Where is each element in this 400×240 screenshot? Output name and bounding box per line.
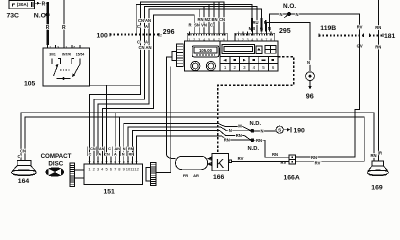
svg-text:181: 181 bbox=[384, 33, 396, 40]
long speaker wire row 1 bbox=[21, 113, 374, 161]
riser 296 pin7 bbox=[218, 2, 220, 32]
svg-text:73C: 73C bbox=[7, 13, 20, 20]
connector strip 296 pins bbox=[187, 32, 227, 42]
svg-text:15/54: 15/54 bbox=[76, 53, 85, 57]
svg-text:96: 96 bbox=[306, 91, 314, 100]
wire second feed to 105 bbox=[63, 0, 65, 45]
connector 100 dotted strip bbox=[110, 33, 162, 38]
svg-text:CN: CN bbox=[138, 18, 144, 23]
radio display bbox=[192, 46, 219, 57]
drop to 151 pin8 bbox=[118, 117, 120, 160]
pin ticks into 151 bbox=[89, 157, 138, 164]
svg-text:N: N bbox=[307, 60, 310, 65]
labels above 295 bbox=[249, 20, 271, 31]
wire from 295 to ground 96 bbox=[266, 22, 310, 71]
svg-text:RN: RN bbox=[128, 147, 134, 151]
svg-text:RV: RV bbox=[357, 25, 363, 30]
svg-text:100: 100 bbox=[97, 32, 109, 39]
wire R thick feed down to 105 bbox=[46, 2, 48, 45]
wire 151 pin9 to junction bbox=[124, 124, 251, 160]
svg-text:AN: AN bbox=[115, 147, 121, 151]
riser 296 pin4 bbox=[203, 7, 205, 32]
shield symbol to 190 bbox=[276, 126, 291, 133]
labels above connector 151 upper row bbox=[90, 147, 134, 151]
inline connector 166A bbox=[289, 155, 296, 164]
svg-text:C: C bbox=[89, 152, 92, 156]
svg-text:CN: CN bbox=[219, 17, 225, 22]
wire junction A to shield symbol bbox=[252, 130, 276, 132]
radio button grid bbox=[220, 57, 278, 71]
svg-text:RN: RN bbox=[370, 153, 376, 158]
cable loop to relay bbox=[176, 156, 212, 169]
svg-text:295: 295 bbox=[279, 28, 291, 35]
svg-text:C: C bbox=[17, 154, 20, 159]
riser 295 MB thick bbox=[251, 18, 253, 32]
svg-text:N: N bbox=[122, 152, 125, 156]
radio panel divider bbox=[219, 41, 221, 71]
svg-text:A: A bbox=[145, 24, 148, 29]
riser 295 stub R bbox=[265, 20, 267, 32]
compact disc symbol bbox=[46, 167, 65, 176]
long speaker wire row 2 bbox=[25, 117, 364, 161]
svg-text:C: C bbox=[137, 40, 140, 45]
svg-text:C: C bbox=[210, 23, 213, 28]
ignition switch unit 105 bbox=[43, 48, 90, 86]
svg-text:SN: SN bbox=[194, 23, 200, 28]
svg-text:A: A bbox=[98, 152, 101, 156]
svg-text:164: 164 bbox=[18, 178, 30, 185]
connector 119B dotted strip bbox=[319, 34, 364, 38]
svg-text:A: A bbox=[114, 152, 117, 156]
junction on R feed bbox=[46, 13, 50, 17]
antenna wire 1 down to loop bbox=[166, 57, 175, 158]
riser 295 G thick bbox=[261, 18, 263, 32]
svg-text:RV: RV bbox=[238, 156, 244, 161]
151 left side plug bbox=[70, 163, 84, 186]
wire bus loop B (pin2 of 151 to 295) bbox=[94, 7, 257, 160]
riser 296 pin5 bbox=[208, 4, 210, 31]
label separators above 151 bbox=[87, 146, 133, 156]
svg-text:FR: FR bbox=[183, 173, 188, 178]
wire RV from relay to 166A bbox=[232, 160, 289, 162]
svg-text:R: R bbox=[46, 25, 50, 31]
svg-text:166A: 166A bbox=[284, 175, 300, 182]
relay 166 bbox=[212, 154, 229, 171]
ground 96 bbox=[306, 72, 315, 90]
pin ticks above switch unit 105 bbox=[48, 45, 80, 49]
svg-text:N: N bbox=[260, 128, 263, 133]
svg-text:COMPACT: COMPACT bbox=[41, 153, 72, 160]
svg-text:N.D.: N.D. bbox=[250, 121, 262, 127]
wire from 105 bottom to bundle bbox=[90, 84, 141, 86]
svg-text:N: N bbox=[295, 12, 298, 17]
riser 296 pin6 bbox=[213, 2, 215, 32]
svg-text:105.00: 105.00 bbox=[199, 48, 212, 53]
svg-text:RN: RN bbox=[256, 138, 262, 143]
relay right pin bbox=[229, 160, 232, 163]
svg-text:VN: VN bbox=[201, 23, 207, 28]
wire 151 pin10 to junction bbox=[128, 127, 251, 160]
svg-text:DISC: DISC bbox=[48, 160, 63, 167]
wire bus loop C (pin3 of 151 to 295) bbox=[98, 9, 262, 160]
junction node on N wire bbox=[285, 12, 291, 18]
antenna wire 2 down to 151 side connector bbox=[156, 67, 171, 173]
svg-text:N: N bbox=[279, 12, 282, 17]
svg-text:M: M bbox=[238, 123, 242, 128]
svg-text:RN: RN bbox=[197, 17, 203, 22]
svg-text:RN: RN bbox=[311, 155, 317, 160]
svg-text:N: N bbox=[123, 147, 126, 151]
cassette slot bbox=[222, 45, 255, 54]
svg-text:R: R bbox=[188, 23, 191, 28]
svg-text:CN: CN bbox=[138, 45, 144, 50]
wire from fuse to node R with arrowhead bbox=[35, 2, 47, 5]
svg-text:N.D.: N.D. bbox=[248, 146, 260, 152]
connector strip 295 pins bbox=[235, 32, 275, 42]
svg-text:190: 190 bbox=[294, 127, 306, 134]
svg-text:296: 296 bbox=[163, 29, 175, 36]
svg-text:AN: AN bbox=[99, 147, 105, 151]
svg-text:30/1: 30/1 bbox=[49, 53, 56, 57]
radio knob right bbox=[206, 61, 215, 70]
svg-text:RV: RV bbox=[315, 160, 321, 165]
fuse box 73C bbox=[9, 1, 35, 9]
svg-text:BN: BN bbox=[211, 17, 217, 22]
svg-text:151: 151 bbox=[104, 189, 116, 196]
car radio unit body bbox=[184, 41, 278, 71]
svg-text:C: C bbox=[137, 24, 140, 29]
labels above 296 upper row bbox=[197, 17, 225, 22]
svg-text:RV: RV bbox=[281, 160, 287, 165]
wire 151 pin11 to junction B bbox=[132, 130, 251, 159]
svg-text:169: 169 bbox=[371, 184, 383, 191]
svg-text:N.O.: N.O. bbox=[283, 3, 296, 10]
svg-text:2: 2 bbox=[160, 34, 162, 38]
radio knob left bbox=[191, 61, 200, 70]
svg-text:R: R bbox=[42, 1, 46, 7]
labels on 100 column below strip bbox=[137, 40, 152, 51]
svg-text:(30A): (30A) bbox=[17, 2, 29, 7]
wire bus loop E (pin5 of 151 to switch unit wire) bbox=[106, 85, 108, 159]
svg-text:CN: CN bbox=[90, 147, 96, 151]
svg-text:AR: AR bbox=[193, 173, 199, 178]
wire 151 pin12 to junction B bbox=[137, 136, 251, 160]
label COMPACT DISC bbox=[41, 153, 72, 167]
relay left pins bbox=[208, 157, 211, 166]
svg-text:RN: RN bbox=[272, 152, 278, 157]
151 right side plug bbox=[146, 163, 156, 186]
svg-text:105: 105 bbox=[24, 81, 36, 88]
svg-text:RN: RN bbox=[375, 25, 381, 30]
svg-text:RU: RU bbox=[252, 20, 258, 25]
eject button bbox=[256, 46, 262, 54]
drop to 151 pin7 bbox=[114, 113, 116, 160]
svg-text:R: R bbox=[62, 25, 66, 31]
wire 119B down to 166A top bbox=[296, 35, 360, 157]
wire bus loop D (pin4 of 151 to 296 pin2) bbox=[102, 15, 194, 160]
speaker 169 bbox=[367, 161, 388, 176]
speaker 164 bbox=[12, 161, 37, 176]
wire 295 pin8 to 119B bbox=[269, 14, 359, 35]
switch contacts inside 105 bbox=[52, 59, 80, 80]
wire 181 feed from top bbox=[377, 0, 379, 161]
svg-text:RN: RN bbox=[375, 45, 381, 50]
svg-text:S: S bbox=[278, 128, 281, 133]
svg-text:CN: CN bbox=[20, 148, 26, 153]
junction node B bbox=[251, 138, 255, 142]
svg-text:RN: RN bbox=[224, 138, 230, 143]
svg-text:N: N bbox=[229, 128, 232, 133]
labels on 100 column above strip bbox=[137, 18, 151, 29]
svg-text:119B: 119B bbox=[320, 25, 336, 32]
svg-text:CN: CN bbox=[104, 152, 110, 156]
svg-text:INT/R: INT/R bbox=[62, 53, 71, 57]
svg-text:AN: AN bbox=[145, 45, 151, 50]
svg-text:166: 166 bbox=[213, 174, 225, 181]
riser 296 pin3 bbox=[198, 9, 200, 32]
wire bus loop A (pin1 of 151 to 296 pin8) bbox=[90, 2, 224, 160]
svg-text:12: 12 bbox=[134, 166, 139, 171]
svg-text:A: A bbox=[145, 40, 148, 45]
svg-text:R: R bbox=[379, 151, 382, 156]
wire junction B to 166A bbox=[252, 140, 289, 157]
svg-text:AN: AN bbox=[145, 18, 151, 23]
antenna connector at radio left bbox=[172, 44, 183, 67]
svg-text:RN: RN bbox=[236, 133, 242, 138]
balance control grid bbox=[265, 45, 276, 53]
wire bus stub F (100 to 295) bbox=[136, 4, 252, 34]
junction node A bbox=[251, 129, 255, 133]
svg-text:C: C bbox=[108, 147, 111, 151]
connector 181 dotted strip bbox=[370, 34, 384, 38]
svg-text:K: K bbox=[216, 157, 225, 171]
labels above connector 151 lower row bbox=[89, 152, 135, 156]
dashed option line from radio to relay 166 bbox=[218, 57, 294, 153]
svg-text:MZ: MZ bbox=[204, 17, 210, 22]
connector 151 body bbox=[84, 164, 143, 185]
labels above 296 lower row bbox=[188, 23, 213, 28]
